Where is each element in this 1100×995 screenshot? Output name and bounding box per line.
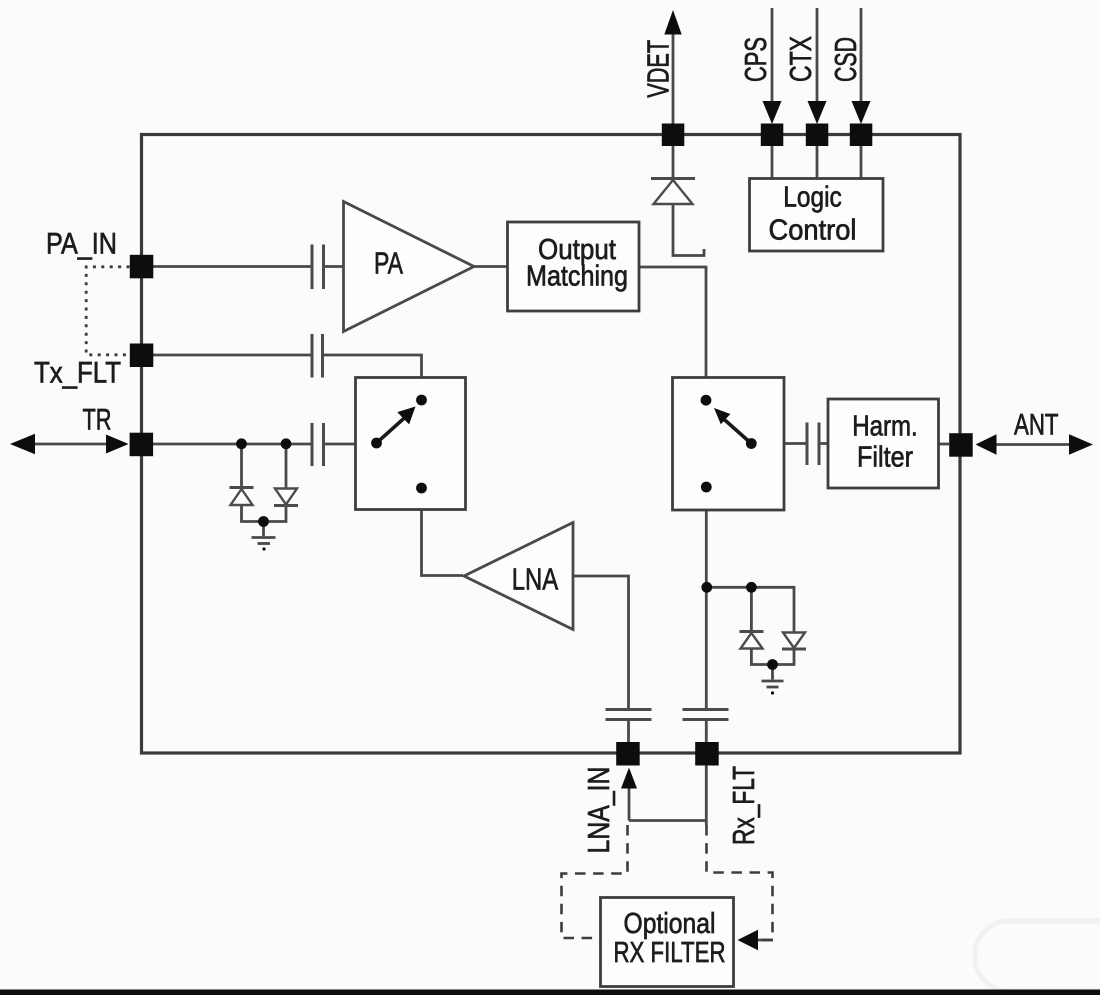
- svg-text:Rx_FLT: Rx_FLT: [726, 766, 761, 845]
- svg-text:VDET: VDET: [641, 40, 676, 98]
- svg-text:PA: PA: [374, 246, 403, 281]
- svg-text:Control: Control: [769, 215, 857, 247]
- svg-text:CTX: CTX: [783, 36, 818, 82]
- svg-text:PA_IN: PA_IN: [46, 228, 117, 261]
- svg-text:CPS: CPS: [738, 37, 773, 82]
- svg-text:ANT: ANT: [1014, 409, 1059, 442]
- svg-text:RX FILTER: RX FILTER: [614, 937, 726, 969]
- svg-text:Logic: Logic: [783, 182, 842, 214]
- svg-text:Tx_FLT: Tx_FLT: [34, 357, 121, 390]
- svg-text:Filter: Filter: [857, 442, 913, 474]
- svg-text:Matching: Matching: [526, 261, 628, 293]
- svg-text:Optional: Optional: [624, 908, 716, 940]
- svg-text:Harm.: Harm.: [852, 411, 918, 443]
- svg-text:CSD: CSD: [828, 37, 863, 82]
- svg-text:LNA_IN: LNA_IN: [581, 767, 616, 854]
- svg-text:TR: TR: [83, 404, 112, 437]
- svg-text:LNA: LNA: [512, 562, 559, 597]
